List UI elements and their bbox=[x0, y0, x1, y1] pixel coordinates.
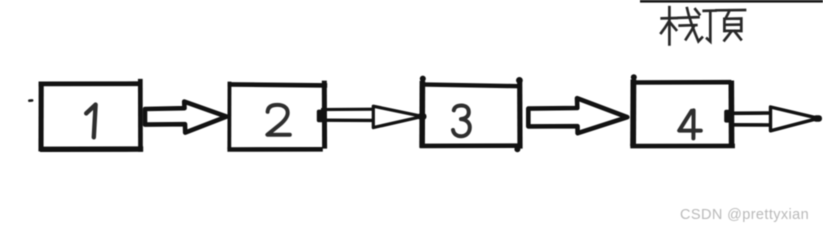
svg-text:CSDN @prettyxian: CSDN @prettyxian bbox=[680, 207, 809, 223]
栈 right 戋 top dot bbox=[695, 9, 699, 14]
value 4 bbox=[679, 110, 701, 138]
block arrow 3→4 bbox=[528, 98, 627, 133]
value 2 bbox=[267, 105, 289, 135]
thin arrow 4→out tip blob bbox=[813, 115, 822, 122]
thin arrow 4→out shaft lines bbox=[729, 111, 772, 115]
thin arrow 2→3 tail nub bbox=[317, 110, 326, 123]
overline above 栈顶 bbox=[640, 0, 823, 3]
value 1 bbox=[86, 105, 95, 138]
栈 right 戋 slanted hook bbox=[687, 8, 702, 41]
栈 right 戋 crossing slash bbox=[686, 26, 694, 40]
thin arrow 4→out tail nub bbox=[724, 110, 734, 123]
顶 right 页 top horizontal bbox=[717, 9, 746, 12]
thin arrow 4→out head bbox=[771, 107, 819, 131]
box node 3 bbox=[420, 76, 523, 153]
label 栈顶 (stack top), drawn as strokes bbox=[661, 7, 745, 44]
box node 2 bbox=[227, 81, 327, 150]
value 3 bbox=[453, 106, 470, 137]
thin arrow 2→3 tip blob bbox=[418, 113, 427, 120]
box node 4 bbox=[630, 74, 735, 148]
顶 right 页 left leg bbox=[724, 31, 731, 40]
顶 right 页 box bbox=[724, 19, 741, 32]
顶 left 丁 horizontal bbox=[704, 9, 716, 12]
栈 right 戋 horizontal 2 bbox=[680, 24, 697, 27]
栈 radical 木 left-falling bbox=[661, 22, 669, 33]
顶 right 页 short slash bbox=[726, 11, 730, 19]
thin arrow 2→3 head bbox=[373, 106, 422, 127]
顶 right 页 inner horizontal bbox=[725, 23, 740, 26]
thin arrow 2→3 shaft lines bbox=[321, 108, 374, 112]
栈 radical 木 right dot bbox=[670, 22, 676, 30]
block arrow 1→2 bbox=[145, 102, 227, 133]
栈 radical 木 vertical bbox=[668, 7, 671, 44]
stray dash left margin bbox=[28, 99, 34, 102]
栈 right 戋 horizontal 1 bbox=[679, 16, 699, 19]
box node 1 bbox=[39, 79, 144, 152]
顶 right 页 right dot leg bbox=[735, 31, 741, 39]
栈 radical 木 horizontal bbox=[662, 17, 677, 20]
顶 left 丁 vertical hook bbox=[707, 11, 710, 42]
